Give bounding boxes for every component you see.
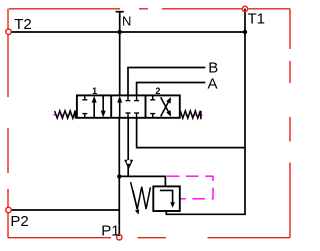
- valve box3 crossed arrow down-right: [161, 97, 171, 116]
- node T1 port circle: [242, 6, 247, 11]
- node P1 port circle: [117, 235, 122, 240]
- relief valve RV1 adjustable spring: [133, 187, 150, 209]
- wire P1 line: [118, 176, 120, 236]
- wire pump line below valve: [118, 118, 120, 177]
- valve box3 blocked port top T: [150, 95, 155, 99]
- valve box2 blocked port bottom-left T: [126, 113, 131, 118]
- wire check valve branch: [127, 118, 129, 177]
- wire port B line: [128, 68, 205, 96]
- node P2 port circle: [6, 207, 11, 212]
- valve box1 blocked port top T: [82, 95, 87, 99]
- directional control valve V1 right spring: [180, 111, 201, 119]
- wire port A line: [137, 83, 206, 96]
- valve box3 blocked port bottom T: [150, 114, 155, 118]
- svg-text:A: A: [208, 75, 218, 92]
- valve box1 up arrow: [92, 96, 97, 118]
- junction dot P node: [117, 174, 121, 178]
- wire P2 line: [11, 209, 119, 211]
- valve box2 blocked port top-right T: [134, 95, 139, 100]
- valve box2 blocked port bottom-right T: [134, 113, 139, 118]
- valve box2 blocked port top-left T: [126, 95, 131, 100]
- valve box1 down arrow: [101, 96, 106, 118]
- directional control valve V1 pilot line left spring: [53, 114, 76, 116]
- check valve CV1: [125, 160, 133, 169]
- svg-text:P2: P2: [10, 213, 28, 230]
- valve box1 blocked port bottom T: [82, 114, 87, 118]
- wire relief valve inlet: [119, 176, 165, 186]
- directional control valve V1 left spring: [55, 111, 76, 119]
- svg-text:T1: T1: [248, 11, 266, 28]
- wire valve to tank T1 line: [137, 118, 245, 148]
- svg-text:N: N: [122, 14, 131, 29]
- svg-text:1: 1: [92, 86, 97, 96]
- relief valve RV1 internal arrow: [160, 190, 175, 208]
- directional control valve V1 pilot line right spring: [185, 114, 202, 116]
- svg-text:P1: P1: [101, 222, 119, 239]
- junction dot at N and tank line: [118, 30, 122, 34]
- node T2 port circle: [6, 29, 11, 34]
- wire tank line T2-T1: [11, 31, 245, 33]
- svg-text:2: 2: [155, 86, 160, 96]
- relief valve RV1 pilot line (magenta dashed): [167, 176, 213, 199]
- relief valve RV1 body: [153, 186, 180, 211]
- directional control valve V1 body boxes: [77, 95, 180, 117]
- wire N line vertical: [119, 12, 121, 96]
- junction dot at T1 and tank line: [243, 30, 247, 34]
- svg-text:T2: T2: [14, 16, 32, 33]
- valve box3 crossed arrow up-right: [161, 97, 171, 116]
- node N terminator tick: [116, 11, 124, 13]
- svg-text:B: B: [208, 60, 218, 77]
- valve box2 through-flow up arrow (N line): [117, 96, 122, 118]
- relief valve RV1 adjustment arrow: [131, 182, 140, 215]
- wire T1 vertical line: [166, 9, 245, 215]
